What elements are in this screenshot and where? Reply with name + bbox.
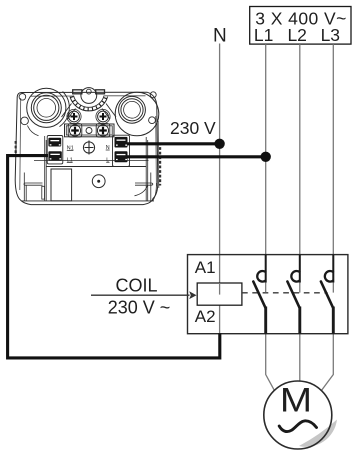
svg-text:COIL: COIL	[115, 276, 157, 296]
svg-text:N: N	[213, 25, 227, 46]
svg-text:L2: L2	[287, 25, 306, 45]
svg-text:230 V: 230 V	[170, 118, 216, 138]
svg-text:M: M	[280, 380, 312, 419]
svg-text:L3: L3	[321, 25, 340, 45]
svg-text:A2: A2	[195, 307, 216, 326]
svg-text:230 V ~: 230 V ~	[108, 298, 171, 318]
svg-text:A1: A1	[195, 258, 216, 277]
svg-text:L1: L1	[254, 25, 273, 45]
